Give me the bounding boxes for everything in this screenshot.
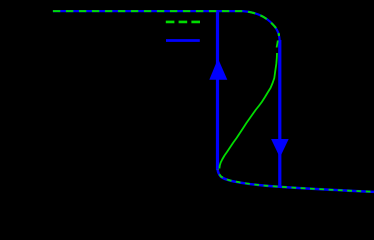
up arrowhead: [209, 59, 227, 80]
down arrowhead: [271, 139, 289, 158]
legend: blue solid sample: [166, 39, 200, 42]
green dashed curve: lower branch over blue: [218, 170, 374, 192]
blue jump-up line: [216, 12, 219, 171]
blue solid curve: lower stable branch with fold corner: [218, 155, 374, 192]
legend: green dashed sample: [166, 21, 200, 24]
green solid unstable middle branch: [219, 53, 277, 169]
green dashed curve: upper branch over blue: [53, 11, 279, 36]
blue jump-down line: [278, 40, 281, 187]
green dash at upper fold: [277, 41, 278, 48]
blue solid curve: upper stable branch with fold corner: [53, 11, 280, 44]
